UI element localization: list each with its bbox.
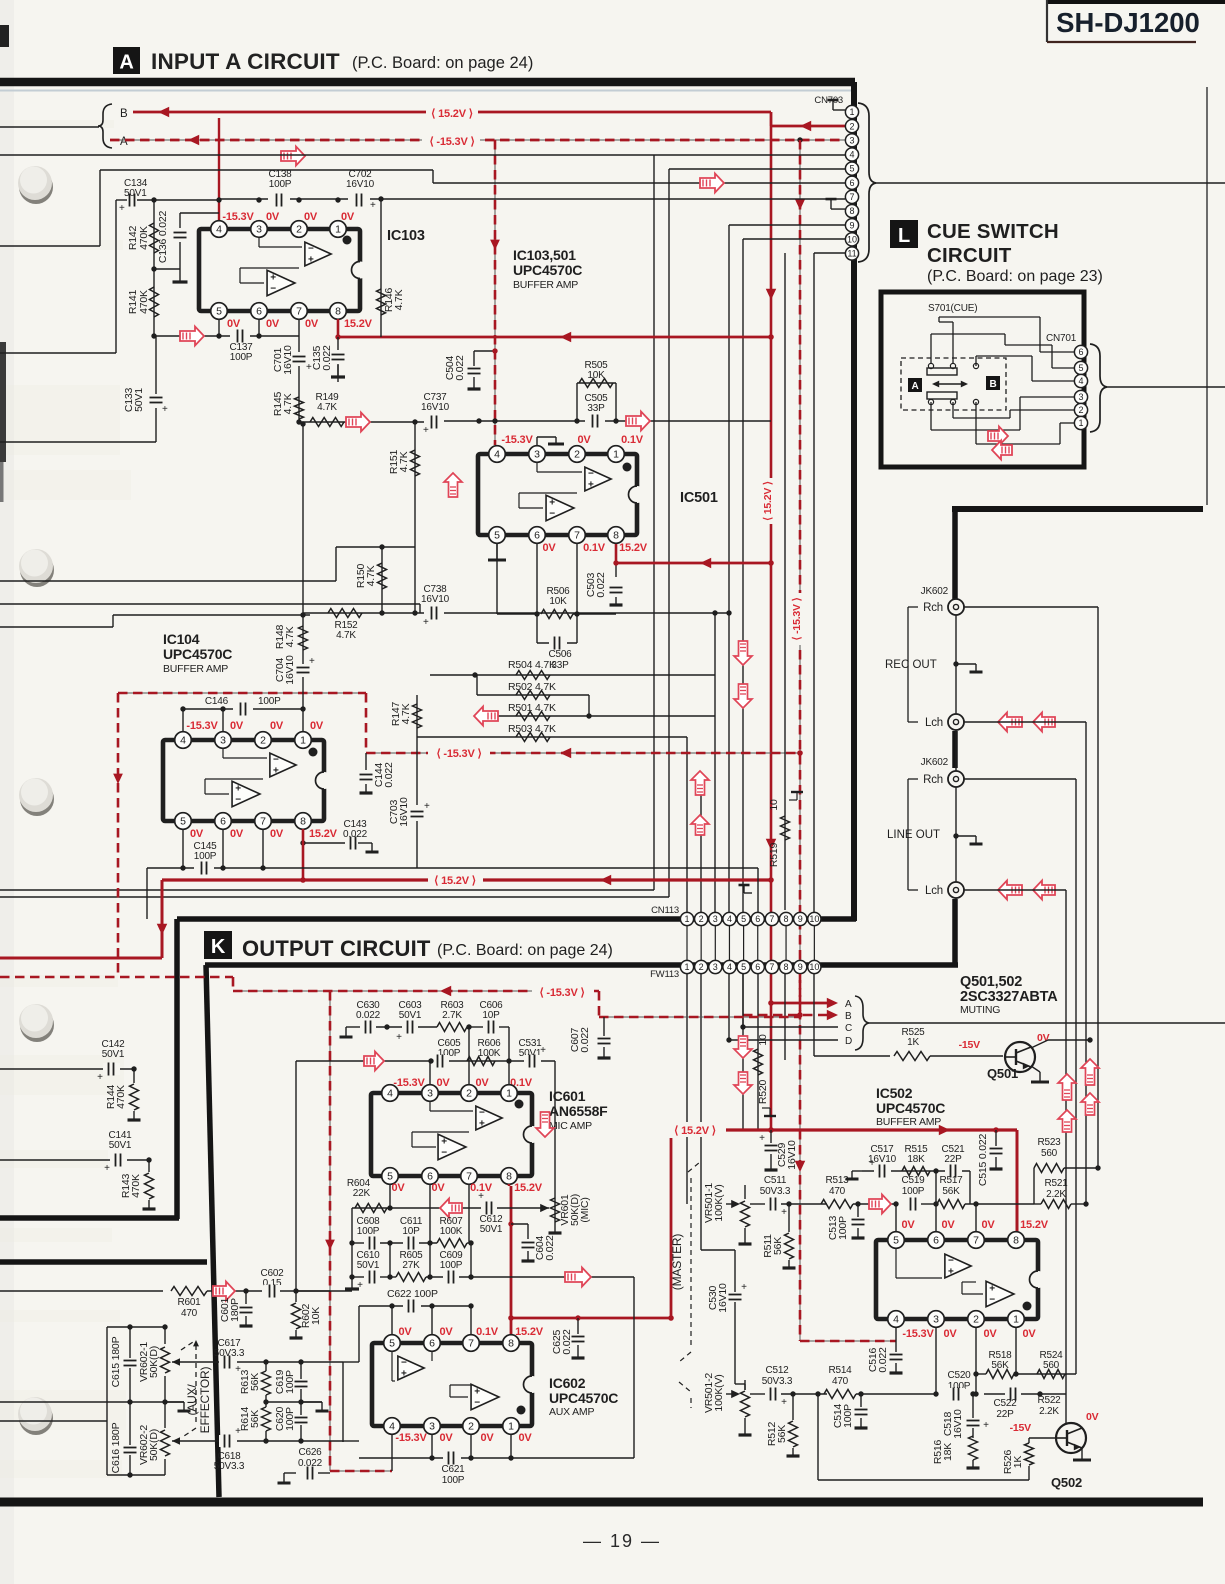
connector FW113 pin 1 xyxy=(680,960,693,973)
svg-text:IC103,501: IC103,501 xyxy=(513,247,576,263)
svg-text:0V: 0V xyxy=(391,1182,405,1194)
ground hook before CN113 pin6 xyxy=(744,892,752,894)
svg-text:⟨ -15.3V ⟩: ⟨ -15.3V ⟩ xyxy=(539,987,584,999)
svg-text:R501 4.7K: R501 4.7K xyxy=(508,702,556,714)
hollow arrow right on y1277 wire xyxy=(565,1268,591,1287)
VR602-1 wiper arrow xyxy=(172,1358,180,1366)
svg-text:MUTING: MUTING xyxy=(960,1004,1000,1016)
svg-text:10: 10 xyxy=(809,962,819,972)
svg-text:10: 10 xyxy=(768,799,780,811)
svg-text:-15.3V: -15.3V xyxy=(902,1328,934,1340)
svg-text:⟨ 15.2V ⟩: ⟨ 15.2V ⟩ xyxy=(674,1125,716,1137)
svg-text:+: + xyxy=(424,801,430,812)
connector CN703 pin 8 xyxy=(845,204,858,217)
connector CN703 pin 3 xyxy=(845,134,858,147)
svg-text:0V: 0V xyxy=(518,1432,532,1444)
red dashed vertical from A rail toward IC501 xyxy=(494,140,496,445)
connector FW113 pin 9 xyxy=(794,960,807,973)
bus y1277 xyxy=(352,1276,364,1278)
connector CN113 pin 7 xyxy=(765,912,778,925)
svg-text:0.1V: 0.1V xyxy=(583,542,606,554)
svg-text:15.2V: 15.2V xyxy=(515,1326,544,1338)
svg-text:CN701: CN701 xyxy=(1046,333,1077,344)
svg-text:UPC4570C: UPC4570C xyxy=(513,262,582,278)
op-amp IC103 B xyxy=(267,270,295,296)
svg-text:4: 4 xyxy=(727,914,732,924)
svg-text:100P: 100P xyxy=(902,1186,925,1197)
connector FW113 pin 6 xyxy=(751,960,764,973)
connector CN701 pin 5 xyxy=(1074,361,1087,374)
svg-text:2: 2 xyxy=(699,914,704,924)
svg-text:-15V: -15V xyxy=(1010,1422,1032,1434)
IC502 internal wires xyxy=(895,1249,897,1278)
hollow arrow right in CUE box xyxy=(988,427,1008,446)
svg-text:15.2V: 15.2V xyxy=(1020,1219,1049,1231)
red wire from B rail corner down to CN703 pin2 xyxy=(770,112,773,126)
svg-text:2.2K: 2.2K xyxy=(1039,1406,1059,1417)
svg-text:AUX AMP: AUX AMP xyxy=(549,1406,594,1418)
resistor R511 xyxy=(786,1201,791,1206)
svg-text:6: 6 xyxy=(1078,347,1083,357)
svg-text:7: 7 xyxy=(466,1171,472,1183)
stub D xyxy=(729,1039,838,1041)
mid bus of VR box xyxy=(0,1401,184,1403)
svg-text:0V: 0V xyxy=(190,828,204,840)
svg-text:C622 100P: C622 100P xyxy=(387,1288,438,1300)
resistor R505 feedback IC501 xyxy=(576,383,578,421)
connector CN703 pin 5 xyxy=(845,162,858,175)
wire VR501-1 wiper xyxy=(726,1203,734,1205)
svg-text:3: 3 xyxy=(933,1314,939,1326)
svg-text:560: 560 xyxy=(1043,1360,1060,1371)
resistor R148 xyxy=(302,615,304,658)
svg-text:IC602: IC602 xyxy=(549,1375,586,1391)
stub C xyxy=(743,1026,838,1028)
svg-text:6: 6 xyxy=(849,178,854,188)
wire IC104 top bus with C146 xyxy=(183,708,303,710)
connector CN701 pin 4 xyxy=(1074,374,1087,387)
wire left y604 xyxy=(0,603,420,605)
svg-text:+: + xyxy=(119,203,125,214)
svg-text:Rch: Rch xyxy=(923,602,943,614)
arrowhead on IC501 dashed drop xyxy=(490,240,500,250)
svg-text:100K(V): 100K(V) xyxy=(713,1184,725,1221)
svg-text:50V1: 50V1 xyxy=(399,1010,422,1021)
hollow arrow up on IC501 input wire xyxy=(444,473,462,497)
svg-text:4.7K: 4.7K xyxy=(282,393,294,414)
wire pin1 drop to bus xyxy=(1015,1327,1017,1374)
svg-text:0V: 0V xyxy=(439,1326,453,1338)
svg-text:6: 6 xyxy=(755,962,760,972)
hollow arrow up near R519 xyxy=(691,771,709,795)
svg-text:+: + xyxy=(540,1045,546,1056)
svg-text:+: + xyxy=(549,498,555,509)
svg-text:27K: 27K xyxy=(402,1260,420,1271)
svg-text:100P: 100P xyxy=(357,1226,380,1237)
svg-text:1: 1 xyxy=(684,914,689,924)
capacitor C622 bus xyxy=(359,1305,471,1307)
svg-text:0.022: 0.022 xyxy=(544,1235,556,1261)
svg-text:IC104: IC104 xyxy=(163,631,200,647)
resistor R150 xyxy=(381,547,383,613)
svg-text:4.7K: 4.7K xyxy=(393,289,405,310)
svg-text:16V10: 16V10 xyxy=(421,594,450,605)
op-amp IC601 body xyxy=(371,1093,532,1176)
svg-text:2: 2 xyxy=(849,121,854,131)
page bottom thick bar xyxy=(0,1498,1203,1507)
svg-text:0V: 0V xyxy=(1022,1328,1036,1340)
svg-text:4.7K: 4.7K xyxy=(400,703,412,724)
Q502 emitter ground xyxy=(1081,1447,1083,1460)
wire C621 bus to x634 xyxy=(511,1457,634,1459)
svg-text:0.022: 0.022 xyxy=(579,1027,591,1053)
dark edge mark top-left xyxy=(0,25,9,47)
svg-text:15.2V: 15.2V xyxy=(619,542,648,554)
connector FW113 pin 8 xyxy=(779,960,792,973)
capacitor C737 xyxy=(424,416,444,429)
svg-text:470K: 470K xyxy=(130,1174,142,1198)
svg-text:100P: 100P xyxy=(194,851,217,862)
connector CN701 pin 1 xyxy=(1074,416,1087,429)
IC502 pin drops top xyxy=(895,1204,897,1238)
svg-text:INPUT A CIRCUIT: INPUT A CIRCUIT xyxy=(151,49,340,74)
section label A INPUT A CIRCUIT xyxy=(113,47,140,74)
svg-text:50V1: 50V1 xyxy=(480,1224,503,1235)
svg-text:50V1: 50V1 xyxy=(124,188,147,199)
svg-text:9: 9 xyxy=(798,914,803,924)
label 15.2V on B rail xyxy=(426,104,478,119)
svg-text:2SC3327ABTA: 2SC3327ABTA xyxy=(960,989,1058,1005)
svg-text:50V3.3: 50V3.3 xyxy=(762,1376,793,1387)
REC/LINE OUT section left border upper xyxy=(952,509,958,599)
resistor R613 xyxy=(265,1362,267,1371)
svg-text:100P: 100P xyxy=(269,179,292,190)
thick border bottom-left horizontal xyxy=(0,1215,179,1221)
svg-text:8: 8 xyxy=(508,1338,514,1350)
svg-text:-15.3V: -15.3V xyxy=(186,720,218,732)
resistor R525 xyxy=(814,1055,890,1057)
jack LINE OUT Lch xyxy=(948,882,964,898)
svg-text:18K: 18K xyxy=(942,1443,954,1461)
svg-text:470K: 470K xyxy=(138,290,150,314)
connector CN113 pin 2 xyxy=(695,912,708,925)
svg-text:+: + xyxy=(401,1369,407,1380)
transistor Q502 xyxy=(1056,1423,1086,1453)
svg-text:+: + xyxy=(423,617,429,628)
brace after ABCD xyxy=(855,996,869,1050)
capacitor C604 xyxy=(508,1221,513,1226)
svg-text:100K: 100K xyxy=(440,1226,463,1237)
svg-text:0V: 0V xyxy=(577,434,591,446)
svg-text:−: − xyxy=(948,1256,954,1267)
hollow arrows up right of Q501 xyxy=(1058,1074,1076,1100)
svg-text:0.022: 0.022 xyxy=(343,829,368,840)
svg-text:0.022: 0.022 xyxy=(561,1329,573,1355)
wire pin2 to row1 xyxy=(468,1027,470,1093)
svg-text:0V: 0V xyxy=(266,318,280,330)
label -15.3V on dashed top edge xyxy=(532,984,594,998)
svg-text:16V10: 16V10 xyxy=(717,1283,729,1313)
svg-text:2.7K: 2.7K xyxy=(442,1010,462,1021)
svg-text:2: 2 xyxy=(1078,405,1083,415)
svg-text:6: 6 xyxy=(534,530,540,542)
main bus y421 to IC501 xyxy=(444,420,771,422)
svg-text:5: 5 xyxy=(849,164,854,174)
svg-text:+: + xyxy=(948,1267,954,1278)
wire LINE Lch to right vertical xyxy=(964,889,1066,891)
wire CN701 bracket to page edge xyxy=(1107,386,1225,388)
Q501 collector wire xyxy=(1031,1040,1048,1048)
svg-text:2: 2 xyxy=(468,1421,474,1433)
connector CN113 pin 6 xyxy=(751,912,764,925)
svg-text:1K: 1K xyxy=(907,1037,919,1048)
svg-text:4: 4 xyxy=(389,1421,395,1433)
svg-text:⟨ 15.2V ⟩: ⟨ 15.2V ⟩ xyxy=(431,108,473,120)
svg-text:100P: 100P xyxy=(230,352,253,363)
svg-text:50V1: 50V1 xyxy=(357,1260,380,1271)
svg-text:4: 4 xyxy=(893,1314,899,1326)
connector CN113 pin 8 xyxy=(779,912,792,925)
thin jack column line xyxy=(955,604,957,899)
capacitor C137 xyxy=(230,330,250,343)
wire C134 left leg down xyxy=(115,200,117,353)
wire C612 to VR601 xyxy=(497,1207,549,1209)
svg-text:(P.C. Board: on page 23): (P.C. Board: on page 23) xyxy=(927,268,1103,285)
svg-text:R519: R519 xyxy=(768,842,780,867)
svg-text:5: 5 xyxy=(494,530,500,542)
capacitor C625 xyxy=(575,1315,580,1320)
IC602 internal wires xyxy=(391,1352,393,1381)
svg-text:15.2V: 15.2V xyxy=(514,1182,543,1194)
svg-text:−: − xyxy=(235,795,241,806)
wire IC501 pin7 down xyxy=(576,544,578,643)
svg-text:100P: 100P xyxy=(284,1370,296,1394)
svg-text:33P: 33P xyxy=(587,403,605,414)
svg-text:4.7K: 4.7K xyxy=(284,626,296,647)
node R142/C136 xyxy=(154,268,180,270)
IC601 pin1 marker dot xyxy=(515,1100,524,1109)
wire LINE Rch to right vertical xyxy=(964,778,1076,780)
svg-text:Q502: Q502 xyxy=(1051,1475,1082,1490)
svg-text:−: − xyxy=(273,755,279,766)
svg-text:22P: 22P xyxy=(944,1154,962,1165)
capacitor C136 xyxy=(179,213,181,269)
svg-text:100P: 100P xyxy=(842,1404,854,1428)
svg-text:50V3.3: 50V3.3 xyxy=(214,1461,245,1472)
connector CN113 pin 1 xyxy=(680,912,693,925)
svg-text:C512: C512 xyxy=(765,1365,789,1376)
svg-text:10K: 10K xyxy=(310,1307,322,1325)
resistor R504 xyxy=(430,674,715,676)
REC OUT bracket xyxy=(908,606,918,608)
hollow arrow left in CUE box xyxy=(992,441,1012,460)
label 15.2V rotated on vertical xyxy=(765,478,778,524)
svg-text:+: + xyxy=(478,1191,484,1202)
wire C133 to left edge xyxy=(0,441,156,443)
connector FW113 pin 7 xyxy=(765,960,778,973)
svg-text:4.7K: 4.7K xyxy=(317,402,337,413)
svg-text:1: 1 xyxy=(335,224,341,236)
connector FW113 pin 4 xyxy=(723,960,736,973)
connector CN113 pin 5 xyxy=(737,912,750,925)
IC104 bottom bus with C145 xyxy=(147,867,263,869)
switch arrows xyxy=(934,383,966,385)
binder hole 3 xyxy=(20,782,54,816)
svg-text:7: 7 xyxy=(973,1235,979,1247)
svg-text:(P.C. Board: on page 24): (P.C. Board: on page 24) xyxy=(437,942,613,959)
resistor R614 xyxy=(262,1407,271,1431)
svg-text:8: 8 xyxy=(1013,1235,1019,1247)
capacitor C134 xyxy=(116,199,127,201)
svg-text:10: 10 xyxy=(809,914,819,924)
svg-text:C515 0.022: C515 0.022 xyxy=(977,1133,989,1186)
jack LINE OUT Rch xyxy=(948,771,964,787)
svg-text:UPC4570C: UPC4570C xyxy=(876,1100,945,1116)
wire from C703 to K area xyxy=(263,867,417,869)
mic signal wire row2 y1061 xyxy=(296,1060,555,1062)
wire CN703 pin11 to bundle xyxy=(814,252,845,254)
op-amp IC501 B xyxy=(546,495,574,521)
svg-text:+: + xyxy=(309,656,315,667)
svg-text:56K: 56K xyxy=(772,1237,784,1255)
resistor R144 xyxy=(133,1069,135,1083)
svg-text:560: 560 xyxy=(1041,1148,1058,1159)
svg-text:A: A xyxy=(845,999,852,1010)
svg-text:+: + xyxy=(370,200,376,211)
wire left box y170 xyxy=(100,169,433,171)
red wire IC104 pin8 to 15.2V bus y880 xyxy=(302,829,305,880)
connector FW113 pin 2 xyxy=(695,960,708,973)
svg-text:0V: 0V xyxy=(901,1219,915,1231)
op-amp IC602 B xyxy=(471,1384,499,1410)
capacitor C133 xyxy=(155,336,157,442)
svg-text:16V10: 16V10 xyxy=(346,179,375,190)
hollow arrow on y421 bus xyxy=(626,412,650,431)
svg-text:2: 2 xyxy=(466,1088,472,1100)
svg-text:470: 470 xyxy=(832,1376,849,1387)
wire CN703 pin9 to bundle xyxy=(729,224,845,226)
dashed red box around IC104 xyxy=(118,692,366,694)
svg-text:+: + xyxy=(741,1282,747,1293)
svg-text:+: + xyxy=(588,480,594,491)
svg-text:0V: 0V xyxy=(230,828,244,840)
IC601 internal wires xyxy=(429,1102,431,1111)
capacitor C141 xyxy=(0,1159,149,1161)
resistor R516 xyxy=(969,1436,978,1460)
svg-text:B: B xyxy=(120,108,128,120)
red vertical IC601 pin8 to IC602 pin8 xyxy=(510,1186,513,1345)
wire CN703 pin6 left xyxy=(433,182,845,184)
switch contact A bar xyxy=(927,368,957,375)
svg-text:R517: R517 xyxy=(939,1175,963,1186)
IC103 pin1 marker dot xyxy=(343,236,352,245)
wire C622 bus pin drops xyxy=(391,1306,393,1337)
svg-text:+: + xyxy=(869,1158,875,1169)
junction A rail to dashed vertical xyxy=(797,137,802,142)
label -15.3V on A rail xyxy=(422,133,480,148)
svg-text:+: + xyxy=(781,1397,787,1408)
red wire segment x233 down from y977 xyxy=(232,977,235,991)
svg-text:2: 2 xyxy=(973,1314,979,1326)
brace for nets B and A xyxy=(98,104,112,148)
svg-text:Q501,502: Q501,502 xyxy=(960,974,1022,990)
capacitor C703 xyxy=(416,737,418,805)
svg-text:5: 5 xyxy=(216,306,222,318)
wires between CN113 and FW113 xyxy=(686,926,688,960)
svg-text:0V: 0V xyxy=(1086,1411,1099,1423)
jack REC OUT Lch xyxy=(948,714,964,730)
resistor R146 xyxy=(380,199,382,337)
IC601 pin7 drop xyxy=(468,1184,470,1243)
ground at IC501 pin3 xyxy=(536,437,538,445)
red arrow down at IC601 label xyxy=(536,1112,554,1137)
capacitor C620 xyxy=(300,1402,302,1415)
capacitor C505 xyxy=(585,415,605,428)
wire left y581 to R150 corner xyxy=(0,580,336,582)
capacitor C530 xyxy=(700,1186,702,1250)
svg-text:B: B xyxy=(845,1011,852,1022)
svg-text:3: 3 xyxy=(1078,392,1083,402)
connector FW113 pin 10 xyxy=(808,960,821,973)
section label L CUE SWITCH CIRCUIT xyxy=(890,220,918,248)
top thick border line xyxy=(0,78,855,87)
wire left y615 to IC104 xyxy=(113,614,310,616)
jack column thick segment below line-out Lch xyxy=(952,899,958,967)
capacitor C518 xyxy=(970,1391,975,1396)
wire A rail -15.3V dashed red xyxy=(110,139,845,141)
svg-text:4: 4 xyxy=(494,449,500,461)
connector CN701 pin 2 xyxy=(1074,403,1087,416)
IC601 pin6 drop xyxy=(429,1184,431,1243)
hollow arrow on row2 xyxy=(364,1052,384,1071)
svg-text:Rch: Rch xyxy=(923,774,943,786)
capacitor C702 xyxy=(348,194,370,206)
svg-text:470K: 470K xyxy=(138,226,150,250)
potentiometer VR601 xyxy=(554,1194,556,1227)
wire VR501-2 wiper xyxy=(726,1393,734,1395)
binder hole 5 xyxy=(19,1401,53,1435)
svg-text:22P: 22P xyxy=(996,1409,1014,1420)
svg-text:4: 4 xyxy=(849,150,854,160)
svg-text:(P.C. Board: on page 24): (P.C. Board: on page 24) xyxy=(352,54,533,72)
capacitor C135 xyxy=(337,337,339,382)
svg-text:180P: 180P xyxy=(229,1298,241,1322)
svg-text:4.7K: 4.7K xyxy=(398,451,410,472)
svg-text:50V3.3: 50V3.3 xyxy=(760,1186,791,1197)
IC501 pin1 marker dot xyxy=(623,463,632,472)
capacitor C601 xyxy=(243,1288,248,1293)
arrowhead on dashed branch xyxy=(560,748,571,759)
svg-text:100P: 100P xyxy=(440,1260,463,1271)
capacitor C618 xyxy=(219,1435,237,1447)
svg-text:AN6558F: AN6558F xyxy=(549,1103,608,1119)
hollow arrows on LINE Lch wire xyxy=(998,881,1022,900)
svg-text:+: + xyxy=(273,766,279,777)
op-amp IC502 body xyxy=(876,1240,1038,1319)
wire IC602 pin4 drop xyxy=(391,1434,393,1471)
dashed red bottom jog to IC602 pin4 xyxy=(330,1470,392,1472)
IC501 internal wires xyxy=(536,463,538,472)
connector CN703 pin 6 xyxy=(845,176,858,189)
svg-text:BUFFER AMP: BUFFER AMP xyxy=(513,279,578,291)
wire y868 to CN113 pin6 xyxy=(417,867,758,869)
hollow arrow after R149 xyxy=(346,413,370,432)
ground at IC501 pin5 xyxy=(496,544,498,560)
svg-text:SH-DJ1200: SH-DJ1200 xyxy=(1056,7,1200,38)
hollow arrows down on pin10 drop xyxy=(734,641,752,665)
svg-text:−: − xyxy=(479,1108,485,1119)
svg-text:3: 3 xyxy=(713,962,718,972)
